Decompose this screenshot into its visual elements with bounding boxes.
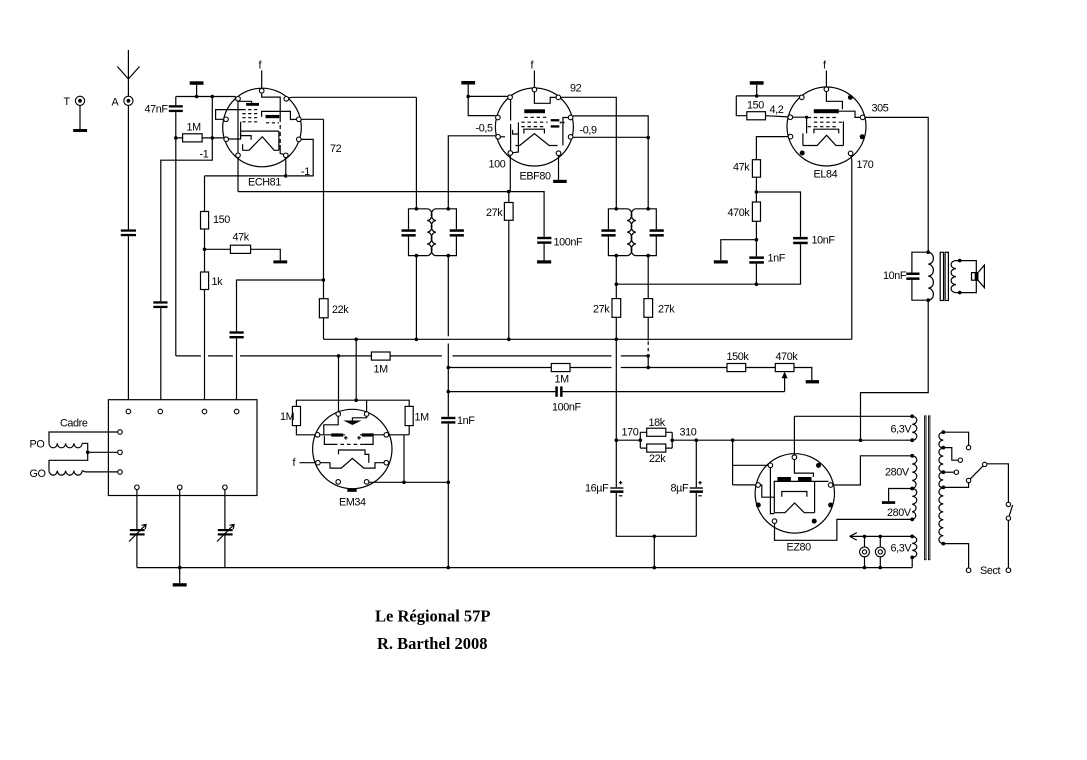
junction dot: [178, 566, 182, 570]
pin lower-right: [384, 460, 389, 465]
switch contact top: [1006, 502, 1010, 506]
junction dot EZ80 feed: [731, 438, 735, 442]
junction dot: [174, 136, 178, 140]
internal triode grid feed: [262, 93, 281, 98]
svg-text:R. Barthel 2008: R. Barthel 2008: [377, 634, 487, 653]
svg-text:470k: 470k: [728, 207, 751, 219]
ground under EBF80: [553, 180, 567, 183]
ground above EL84: [750, 81, 764, 85]
junction dot AGC x338.5: [337, 354, 341, 358]
svg-text:1M: 1M: [415, 412, 430, 424]
cathode bar: [814, 109, 839, 113]
wire 1M right bottom column: [389, 426, 410, 483]
pin right: [297, 117, 302, 122]
resistor 150k: [727, 364, 746, 372]
svg-text:280V: 280V: [887, 507, 912, 519]
junction dot: [447, 254, 451, 258]
pin top-left: [508, 95, 513, 100]
pin top-right filled: [816, 463, 821, 468]
junction dot: [755, 190, 759, 194]
ground for 47k: [273, 260, 287, 263]
junction dot: [86, 451, 90, 455]
wire bottom-right pin down: [285, 158, 287, 176]
capacitor 8uF: [690, 487, 703, 488]
junction dot: [354, 398, 358, 402]
switch contact bottom: [1006, 516, 1010, 520]
core power transformer: [925, 416, 926, 560]
wire grid pin to 47k: [756, 137, 788, 160]
ground above EBF80: [461, 81, 475, 85]
resistor 1k: [201, 272, 209, 290]
wire speaker top: [956, 261, 976, 273]
variable capacitor 2: [218, 529, 233, 531]
terminal Sect left: [966, 568, 971, 573]
wire triode grid pin down: [237, 158, 239, 192]
OT core: [940, 252, 943, 300]
junction dot: [653, 566, 657, 570]
pin right: [828, 483, 833, 488]
capacitor 1nF detector: [441, 417, 455, 419]
resistor 1M audio: [551, 364, 570, 372]
capacitor on x236.5 column: [230, 331, 244, 333]
pin bottom-right filled: [812, 519, 817, 524]
wire top pin filament: [793, 416, 795, 455]
wire heptode plate pin right: [301, 118, 323, 120]
wire audio line to 150k: [570, 367, 727, 369]
internal left column: [510, 100, 512, 151]
junction dot: [646, 354, 650, 358]
minus mark: [619, 495, 622, 497]
anode bar right: [798, 477, 812, 481]
capacitor IFT1 left: [402, 229, 416, 232]
svg-text:1M: 1M: [280, 411, 295, 423]
anode bracket: [814, 129, 839, 133]
tube EZ80 envelope: [755, 454, 834, 533]
wire 27k top lead: [508, 192, 510, 203]
svg-text:-0,9: -0,9: [580, 125, 597, 137]
junction dot: [447, 481, 451, 485]
resistor 47k: [752, 160, 760, 178]
pin right: [568, 115, 573, 120]
pin lower-left: [224, 137, 229, 142]
internal diode column: [563, 118, 568, 146]
inductor IFT1 secondary: [431, 209, 436, 256]
terminal block T2: [158, 409, 163, 414]
ground above: [196, 85, 198, 97]
capacitor IFT2 left: [601, 229, 615, 232]
pin top: [532, 87, 537, 92]
wire cathode column x204.5: [204, 176, 206, 212]
svg-text:470k: 470k: [776, 351, 799, 363]
junction dot: [958, 291, 962, 295]
wire IFT2 right leg to 27k: [647, 256, 649, 299]
resistor network bracket left: [639, 432, 641, 448]
resistor 27k third: [644, 299, 653, 318]
terminal T: [75, 96, 84, 105]
wire grid2 line y191.6: [238, 192, 544, 237]
wire 1M left bottom to pin: [296, 426, 315, 435]
cathode bar: [246, 103, 259, 106]
pin lower-left: [496, 135, 501, 140]
wire g3 line to top-left pin: [736, 95, 799, 97]
inductor IFT1 primary: [427, 209, 432, 256]
pin bottom-right: [364, 480, 369, 485]
svg-text:150: 150: [213, 214, 230, 226]
wire grid branch up: [211, 97, 213, 138]
potentiometer 470k: [775, 364, 794, 372]
terminal block L2: [118, 450, 123, 455]
wire 27k to 170 rail: [615, 317, 617, 440]
svg-text:27k: 27k: [658, 304, 675, 316]
terminal block B3: [223, 485, 228, 490]
junction dot: [958, 259, 962, 263]
wire AGC line y356: [176, 355, 648, 357]
capacitor 10nF speaker: [906, 273, 919, 276]
junction dot: [466, 95, 470, 99]
wire audio line y367.5: [448, 367, 551, 369]
resistor network bracket right: [671, 432, 673, 448]
pin lower-left: [788, 134, 793, 139]
resistor 1M right: [405, 406, 413, 425]
wire 10nF top branch: [756, 192, 800, 237]
wire A cap to block: [127, 236, 129, 409]
wire ground branch: [721, 240, 757, 261]
wire f: [261, 71, 263, 89]
wire grid branch down-left: [161, 138, 213, 301]
anode bar left: [777, 477, 791, 481]
minus mark: [698, 495, 701, 497]
internal TL feed: [324, 416, 338, 435]
svg-text:GO: GO: [30, 468, 46, 480]
wire lower-left grid pin stub: [500, 136, 505, 138]
pin lower-right: [297, 137, 302, 142]
pin top-right: [556, 95, 561, 100]
wire cathode pin to bus: [324, 156, 852, 340]
resistor 150: [201, 212, 209, 230]
resistor 1M AGC: [371, 352, 390, 360]
wire B2 to ground: [179, 490, 181, 584]
junction dot: [615, 338, 619, 342]
wire 470k to 1nF: [755, 221, 757, 256]
internal anode peak: [320, 458, 384, 468]
internal left column: [770, 468, 774, 514]
resistor 22k: [319, 299, 328, 318]
terminal Sect right: [1006, 568, 1011, 573]
secondary 280V lower: [912, 489, 917, 520]
pin bottom-left: [772, 519, 777, 524]
junction dot audio line left: [447, 366, 451, 370]
wire 47nF bottom to 1M: [175, 112, 177, 356]
junction dot bus x416: [415, 338, 419, 342]
junction dot OT top: [926, 250, 930, 254]
svg-text:EBF80: EBF80: [520, 171, 551, 183]
anode bracket: [524, 129, 545, 133]
svg-text:EZ80: EZ80: [787, 542, 812, 554]
wire 8uF column: [695, 440, 697, 536]
wire detector column mid: [447, 424, 449, 568]
svg-text:1nF: 1nF: [768, 253, 786, 265]
lamp 1: [864, 536, 866, 547]
svg-text:22k: 22k: [649, 453, 666, 465]
bottom pip bar: [347, 488, 356, 492]
wire bottom-right pin to ground: [558, 156, 560, 180]
capacitor on A line: [121, 229, 136, 231]
svg-text:Le Régional 57P: Le Régional 57P: [375, 607, 491, 626]
wire 47k to 470k: [755, 177, 757, 202]
junction dot: [755, 238, 759, 242]
svg-text:-1: -1: [301, 166, 310, 178]
wire EM34 HT branch: [355, 339, 357, 400]
resistor 1M left: [292, 406, 300, 425]
IFT2 left leg top: [561, 97, 616, 209]
pin lower-right filled: [860, 134, 865, 139]
wire 1M tops: [296, 400, 409, 406]
internal cathode feed: [238, 101, 252, 103]
junction dot: [615, 207, 619, 211]
wire cadre to L1: [49, 432, 118, 443]
wire branch to padder cap: [237, 280, 324, 331]
tube EL84 envelope: [787, 87, 866, 166]
terminal block B1: [135, 485, 140, 490]
svg-text:72: 72: [330, 143, 342, 155]
resistor 27k first: [504, 203, 513, 221]
svg-text:22k: 22k: [332, 304, 349, 316]
primary tap 1: [941, 430, 945, 434]
wire cathode line y176: [205, 175, 286, 177]
wire PO to L2: [82, 443, 118, 452]
internal cathode peak: [774, 503, 814, 513]
resistor 150: [747, 112, 766, 120]
internal shield line: [279, 98, 281, 118]
wire var cap 2 to bus: [224, 536, 226, 568]
pin lower-right: [568, 135, 573, 140]
pin bottom-right: [848, 151, 853, 156]
inductor IFT2 primary: [627, 209, 632, 256]
arrow var cap 1: [129, 524, 146, 541]
internal bar wires: [320, 434, 384, 436]
tube EM34 envelope: [313, 409, 392, 488]
pin top-right filled: [848, 95, 853, 100]
pin right: [860, 115, 865, 120]
pin bottom-right: [284, 153, 289, 158]
wire HT line y440: [616, 439, 912, 441]
capacitor on left column: [153, 301, 167, 303]
junction dot: [863, 566, 867, 570]
junction dot: [415, 207, 419, 211]
tube EBF80 envelope: [495, 88, 573, 166]
internal grid dot: [805, 116, 808, 119]
svg-text:170: 170: [857, 159, 874, 171]
secondary 6.3V bottom: [912, 536, 917, 557]
wire f to pin: [300, 462, 316, 464]
svg-text:305: 305: [872, 103, 889, 115]
internal left pin step: [760, 485, 774, 497]
internal left column: [237, 101, 239, 153]
wire GO to L3: [82, 471, 118, 472]
anode right side: [278, 131, 280, 150]
wire filter mid to bus: [653, 536, 655, 567]
svg-text:310: 310: [680, 427, 697, 439]
wire cathode pin to 280V top: [833, 456, 912, 485]
inductor IFT2 secondary: [631, 209, 636, 256]
speaker driver: [972, 273, 978, 281]
wire 100nF to ground: [543, 244, 545, 260]
junction dot: [755, 94, 759, 98]
internal grid dashes: [334, 443, 364, 445]
wire 27k AGC tail: [647, 317, 649, 340]
svg-text:1nF: 1nF: [457, 415, 475, 427]
junction dot: [646, 136, 650, 140]
wire speaker bottom: [956, 280, 976, 292]
svg-text:A: A: [112, 97, 120, 109]
diode plate 2: [551, 125, 560, 127]
diode plate 1: [551, 119, 560, 121]
selector blade: [970, 466, 983, 479]
pin top-left: [768, 463, 773, 468]
internal grid dashes: [808, 118, 843, 127]
pin lower-left: [316, 460, 321, 465]
wire 1k to block: [204, 290, 206, 410]
plus mark: [357, 436, 361, 440]
resistor 27k second: [612, 299, 621, 318]
speaker horn: [978, 265, 985, 288]
junction dot OT bottom: [926, 298, 930, 302]
pin lower-right filled: [828, 503, 833, 508]
ground for 470k: [714, 260, 728, 263]
capacitor IFT2 right: [650, 229, 664, 232]
wire A down: [127, 105, 129, 229]
wire 100nF to wiper: [563, 391, 785, 393]
anode left side: [802, 133, 804, 145]
junction dot volume line left: [447, 390, 451, 394]
wire var cap 1 to bus: [136, 536, 138, 568]
pin bottom-left filled: [800, 151, 805, 156]
anode peak: [243, 137, 279, 151]
resistor 18k: [640, 431, 672, 433]
wire triode plate pin: [288, 139, 313, 176]
wire B3 to variable cap 2: [224, 490, 226, 529]
wire 10nF bottom branch: [616, 244, 800, 284]
wire 150 left lead: [736, 96, 747, 116]
pin top-right: [364, 412, 369, 417]
svg-text:EM34: EM34: [339, 497, 366, 509]
junction dot bus x356: [354, 338, 358, 342]
wire 1nF down: [755, 264, 757, 285]
svg-text:-0,5: -0,5: [476, 123, 493, 135]
wire B1 to variable cap: [136, 490, 138, 529]
terminal block T4: [234, 409, 239, 414]
pin bottom-left: [336, 480, 341, 485]
variable capacitor 1: [130, 529, 145, 531]
internal cathode bracket: [782, 492, 807, 497]
junction dot: [322, 278, 326, 282]
junction dot: [615, 438, 619, 442]
junction dot: [879, 566, 883, 570]
diode cathode ticks: [560, 122, 562, 124]
wire 16uF column: [616, 440, 696, 536]
arrow var cap 2: [217, 524, 234, 541]
anode left tick: [242, 144, 244, 150]
pin top: [259, 88, 264, 93]
arrow head: [850, 533, 857, 540]
junction dot: [615, 254, 619, 258]
svg-text:T: T: [64, 96, 71, 108]
wire 6.3V bottom to bus: [911, 557, 913, 567]
svg-text:47nF: 47nF: [145, 104, 169, 116]
wire switch to Sect: [1007, 521, 1009, 568]
junction dot: [646, 207, 650, 211]
capacitor 1nF: [749, 256, 764, 259]
wire pot to ground: [794, 368, 812, 381]
pin top-right: [284, 97, 289, 102]
svg-text:150k: 150k: [727, 351, 750, 363]
wire 27k to bus: [508, 220, 510, 339]
wire plate pin to output transformer: [865, 117, 928, 252]
terminal block T1: [126, 409, 131, 414]
wire 47nF top stem: [175, 97, 177, 106]
wire right pin line: [572, 115, 574, 118]
junction dot: [755, 282, 759, 286]
junction dot: [879, 535, 883, 539]
plus mark: [344, 436, 348, 440]
capacitor 16uF: [610, 487, 623, 488]
wire ground to top-left pin: [468, 95, 508, 97]
primary tap 3: [941, 470, 945, 474]
wire 47k to ground: [251, 249, 281, 260]
capacitor 100nF coupling: [555, 386, 558, 396]
svg-text:1M: 1M: [187, 122, 202, 134]
pin bottom-left: [236, 153, 241, 158]
wire 47k lead: [205, 248, 231, 250]
internal screen feed: [839, 111, 861, 117]
ground for pot: [806, 380, 819, 383]
pin left: [224, 117, 229, 122]
junction dot: [507, 190, 511, 194]
internal target bar left: [331, 433, 343, 436]
svg-text:1k: 1k: [212, 276, 224, 288]
inductor OT primary: [928, 252, 933, 300]
wire EM34 grid branch: [338, 356, 340, 412]
IFT1 primary loop: [409, 209, 428, 256]
junction dot: [415, 254, 419, 258]
wire triode plate column x323.5: [323, 119, 325, 298]
inductor GO: [49, 471, 82, 476]
wire 150k to 470k pot: [746, 367, 776, 369]
triode grid frame: [262, 111, 297, 119]
junction dot filter mid: [653, 535, 657, 539]
anode left step: [241, 131, 252, 140]
internal grid bracket: [324, 436, 333, 444]
junction dot: [863, 535, 867, 539]
junction dot: [211, 136, 215, 140]
wire selector to switch: [987, 464, 1009, 502]
wire T to ground: [79, 105, 81, 129]
antenna: [117, 50, 139, 96]
capacitor IFT1 right: [450, 229, 464, 232]
junction dot: [203, 248, 207, 252]
wire OT return down: [861, 300, 929, 440]
svg-text:100nF: 100nF: [552, 402, 581, 414]
wire top-left pin to grid line: [234, 97, 236, 99]
svg-text:47k: 47k: [233, 232, 250, 244]
wire lamps line: [851, 535, 913, 537]
junction dot: [447, 566, 451, 570]
wire bottom-left pin heater: [775, 519, 913, 540]
wire 150 to 1k: [204, 229, 206, 272]
internal target triangle: [343, 421, 361, 426]
triode grid dash: [266, 122, 279, 124]
terminal block B2: [177, 485, 182, 490]
